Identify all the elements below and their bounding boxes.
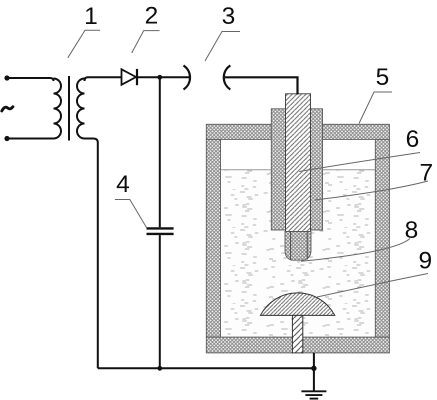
wire primary top — [7, 78, 54, 81]
chamber wall top-left segment — [206, 124, 389, 353]
junction dot capacitor-bus — [157, 366, 162, 371]
bottom bus wire — [98, 367, 314, 369]
svg-text:9: 9 — [418, 248, 432, 275]
liquid level line — [221, 169, 376, 171]
svg-text:7: 7 — [419, 160, 433, 187]
spark gap FV right electrode — [224, 65, 231, 89]
chamber wall bottom-left segment — [206, 337, 292, 353]
svg-text:6: 6 — [406, 126, 420, 153]
leader label 8 — [301, 239, 410, 262]
leader label 1 — [68, 30, 100, 58]
wire spark gap to electrode rod — [225, 77, 298, 94]
electrode rod 6 — [286, 94, 311, 232]
chamber wall top-right segment — [323, 124, 390, 139]
leader label 2 — [132, 31, 160, 53]
chamber wall right — [375, 139, 389, 337]
node A junction dot — [157, 75, 162, 80]
svg-text:4: 4 — [116, 171, 130, 198]
ground symbol — [301, 391, 326, 398]
junction dot ground-bus — [311, 366, 316, 371]
transformer T1 primary winding — [54, 79, 62, 139]
workpiece dome 9 — [260, 293, 334, 316]
leader label 6 — [299, 153, 420, 172]
leader label 9 — [317, 274, 428, 298]
svg-text:1: 1 — [84, 3, 98, 30]
capacitor C top plate — [147, 227, 174, 229]
wire primary bottom — [7, 138, 54, 140]
liquid (dielectric bath) — [221, 170, 376, 338]
svg-text:5: 5 — [376, 64, 390, 91]
diode VD cathode bar — [136, 69, 138, 85]
svg-text:8: 8 — [405, 217, 419, 244]
svg-text:3: 3 — [222, 3, 236, 30]
wire secondary top to diode — [85, 77, 122, 81]
pedestal — [292, 315, 302, 353]
insulator sleeve 7 — [271, 109, 322, 230]
chamber wall bottom-right segment — [303, 337, 390, 353]
AC terminal top — [4, 75, 9, 80]
wire diode to node A — [137, 76, 189, 78]
transformer T1 secondary winding — [77, 79, 84, 139]
svg-text:2: 2 — [145, 2, 159, 29]
wire node A down to capacitor — [159, 77, 161, 227]
AC terminal bottom — [4, 136, 9, 141]
tip inner lines — [290, 232, 292, 260]
leader label 4 — [115, 200, 147, 228]
wire chamber to ground — [313, 353, 315, 391]
transformer core — [68, 76, 70, 141]
spark gap FV left electrode — [184, 65, 191, 89]
leader label 3 — [205, 32, 240, 62]
diode VD anode triangle — [122, 69, 137, 85]
leader label 5 — [359, 92, 392, 124]
chamber wall left — [206, 139, 220, 337]
wire secondary bottom down — [85, 139, 98, 369]
capacitor C bottom plate — [147, 233, 174, 235]
wire capacitor to bus — [159, 235, 161, 368]
leader label 7 — [315, 181, 428, 200]
electrode tip 8 — [285, 232, 311, 261]
AC tilde — [2, 107, 13, 111]
